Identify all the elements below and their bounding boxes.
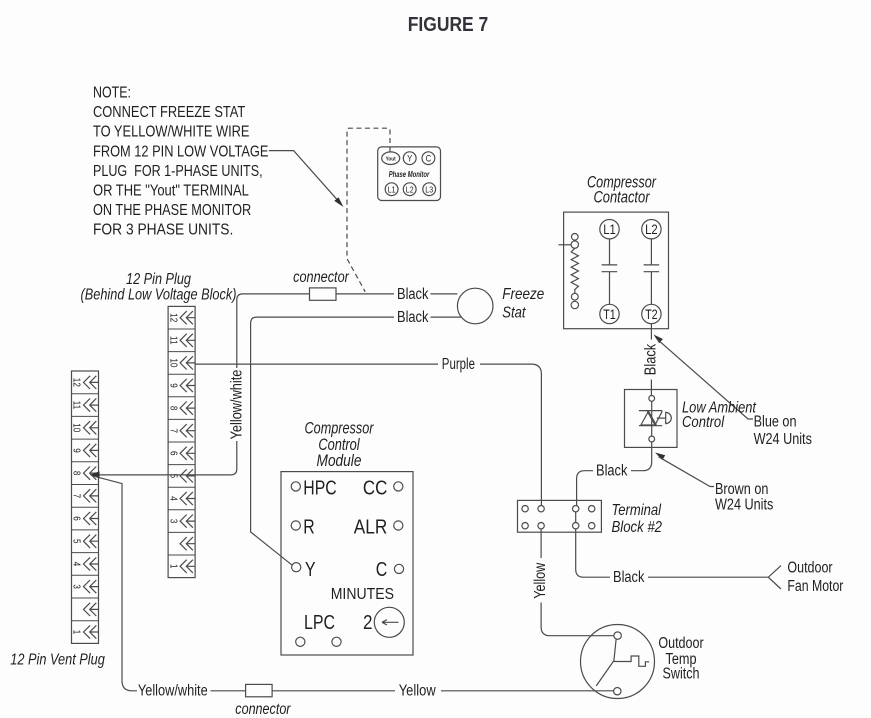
svg-text:Terminal: Terminal	[612, 502, 662, 519]
svg-text:FIGURE 7: FIGURE 7	[408, 13, 489, 36]
low ambient internal wires	[651, 401, 653, 436]
svg-text:12 Pin Vent Plug: 12 Pin Vent Plug	[10, 652, 105, 669]
phase monitor terminal C	[422, 152, 435, 165]
12 pin vent plug J2 pin 5 chevron contact	[84, 535, 99, 548]
12 pin low voltage plug J1 pin 1 chevron contact	[180, 560, 195, 573]
note leader arrowhead	[334, 197, 343, 207]
module LPC terminal screw 1	[296, 637, 305, 646]
12 pin low voltage plug J1 cell divider	[168, 351, 195, 353]
svg-text:ON THE PHASE MONITOR: ON THE PHASE MONITOR	[93, 202, 251, 219]
wire from vent plug pin 8 down to bottom connector	[95, 476, 138, 691]
12 pin low voltage plug J1 cell divider	[168, 509, 195, 511]
svg-text:1: 1	[167, 564, 178, 569]
12 pin vent plug J2 cell divider	[72, 574, 99, 576]
svg-text:6: 6	[71, 516, 82, 521]
terminal block screw	[589, 506, 595, 512]
terminal block screw	[538, 523, 544, 529]
low ambient valve symbol	[639, 411, 671, 426]
svg-text:6: 6	[167, 451, 178, 456]
svg-text:W24 Units: W24 Units	[754, 431, 812, 448]
svg-text:9: 9	[167, 383, 178, 388]
phase monitor terminal Yout	[382, 152, 400, 165]
leader arrowhead at T2 wire	[654, 335, 663, 344]
wire black from contactor T2 to low ambient control	[650, 324, 652, 396]
phase monitor terminal L1	[385, 183, 398, 196]
terminal block screw	[589, 523, 595, 529]
svg-text:4: 4	[71, 562, 82, 567]
contactor terminal T1	[600, 304, 619, 323]
svg-text:Black: Black	[642, 344, 659, 376]
12 pin low voltage plug J1 pin 6 chevron contact	[180, 447, 195, 460]
terminal block screw	[573, 523, 579, 529]
svg-text:Yellow/white: Yellow/white	[228, 370, 245, 440]
note leader line	[269, 151, 339, 202]
12 pin low voltage plug J1 pin 3 chevron contact	[180, 515, 195, 528]
svg-text:Control: Control	[682, 414, 724, 431]
svg-text:5: 5	[71, 539, 82, 544]
svg-text:10: 10	[167, 358, 178, 367]
svg-text:connector: connector	[235, 701, 291, 718]
module terminal C	[394, 564, 403, 573]
svg-text:Blue on: Blue on	[754, 414, 797, 431]
svg-text:Yellow/white: Yellow/white	[138, 682, 208, 699]
svg-text:Freeze: Freeze	[502, 286, 544, 303]
contactor terminal L2	[642, 220, 661, 239]
svg-text:9: 9	[71, 448, 82, 453]
wire purple from plug pin 10 to terminal block	[195, 363, 438, 365]
svg-text:Stat: Stat	[502, 305, 526, 322]
svg-text:Black: Black	[596, 463, 628, 480]
svg-text:C: C	[426, 154, 432, 165]
svg-text:TO YELLOW/WHITE WIRE: TO YELLOW/WHITE WIRE	[93, 124, 250, 141]
svg-text:OR THE "Yout" TERMINAL: OR THE "Yout" TERMINAL	[93, 183, 249, 200]
svg-text:Contactor: Contactor	[593, 189, 650, 207]
12 pin low voltage plug J1 cell divider	[168, 486, 195, 488]
svg-text:12: 12	[71, 378, 82, 387]
12 pin low voltage plug J1 pin 9 chevron contact	[180, 379, 195, 392]
svg-text:T1: T1	[603, 307, 616, 322]
svg-text:PLUG FOR 1-PHASE UNITS,: PLUG FOR 1-PHASE UNITS,	[93, 163, 263, 180]
12 pin vent plug J2 cell divider	[72, 597, 99, 599]
svg-text:C: C	[376, 559, 388, 581]
phase monitor U1	[378, 147, 441, 201]
svg-text:7: 7	[71, 494, 82, 499]
temp switch top terminal	[614, 632, 621, 639]
terminal block screw	[573, 506, 579, 512]
svg-text:L2: L2	[406, 184, 414, 194]
12 pin low voltage plug J1 cell divider	[168, 554, 195, 556]
svg-text:4: 4	[167, 496, 178, 501]
wire black from terminal block to outdoor fan motor	[576, 529, 769, 577]
terminal block #2 body	[518, 500, 602, 532]
module terminal ALR	[394, 521, 403, 530]
wire black from low ambient bottom to terminal block	[577, 442, 652, 506]
12 pin low voltage plug J1 cell divider	[168, 531, 195, 533]
12 pin low voltage plug J1 cell divider	[168, 373, 195, 375]
terminal block screw	[538, 506, 544, 512]
wire yellow/white from plug pin 5 up to freeze stat black wire	[92, 441, 237, 475]
svg-text:FOR 3 PHASE UNITS.: FOR 3 PHASE UNITS.	[93, 222, 233, 239]
svg-text:2: 2	[363, 612, 373, 634]
12 pin vent plug J2 pin 8 chevron contact	[84, 467, 99, 480]
svg-text:L3: L3	[425, 184, 433, 194]
contactor coil	[559, 234, 579, 309]
12 pin low voltage plug J1 pin 11 chevron contact	[180, 334, 195, 347]
12 pin low voltage plug J1 pin 4 chevron contact	[180, 492, 195, 505]
connector (bottom)	[246, 684, 273, 696]
svg-text:Yellow: Yellow	[532, 562, 549, 599]
minutes dial	[374, 607, 404, 637]
fan motor connection fork	[768, 566, 781, 589]
svg-text:L1: L1	[388, 184, 396, 194]
svg-text:Block #2: Block #2	[612, 519, 663, 536]
svg-text:Yellow: Yellow	[399, 682, 437, 699]
12 pin low voltage plug J1 pin 12 chevron contact	[180, 311, 195, 324]
contactor terminal T2	[642, 304, 661, 323]
svg-text:7: 7	[167, 428, 178, 433]
temp switch actuator	[614, 656, 649, 666]
12 pin low voltage plug J1 cell divider	[168, 396, 195, 398]
12 pin low voltage plug J1 pin 2 chevron contact	[180, 537, 195, 550]
12 pin vent plug J2 pin 1 chevron contact	[84, 625, 99, 638]
12 pin vent plug J2 cell divider	[72, 529, 99, 531]
12 pin vent plug J2 body	[72, 371, 99, 643]
12 pin vent plug J2 cell divider	[72, 438, 99, 440]
svg-text:12: 12	[167, 313, 178, 322]
svg-text:12 Pin Plug: 12 Pin Plug	[126, 271, 191, 288]
svg-text:8: 8	[71, 471, 82, 476]
svg-text:L1: L1	[603, 222, 616, 237]
12 pin vent plug J2 pin 6 chevron contact	[84, 512, 99, 525]
svg-text:HPC: HPC	[303, 477, 336, 499]
svg-text:Compressor: Compressor	[305, 420, 375, 438]
12 pin vent plug J2 cell divider	[72, 506, 99, 508]
svg-text:T2: T2	[645, 307, 658, 322]
wire yellow from terminal block to outdoor temp switch	[541, 529, 614, 636]
12 pin low voltage plug J1 pin 8 chevron contact	[180, 402, 195, 415]
12 pin low voltage plug J1 pin 5 chevron contact	[180, 469, 195, 482]
12 pin vent plug J2 pin 3 chevron contact	[84, 580, 99, 593]
contactor pole L2-T2	[644, 239, 660, 304]
svg-text:Module: Module	[317, 452, 362, 470]
svg-text:3: 3	[71, 584, 82, 589]
svg-text:Outdoor: Outdoor	[658, 635, 703, 652]
freeze stat S1	[457, 288, 493, 324]
svg-text:CC: CC	[363, 477, 387, 499]
12 pin vent plug J2 pin 7 chevron contact	[84, 489, 99, 502]
phase monitor terminal L3	[423, 183, 436, 196]
wire black to freeze stat (upper)	[336, 293, 457, 295]
wire black to freeze stat (lower) from module Y terminal	[251, 317, 462, 565]
low ambient top terminal	[649, 396, 655, 402]
svg-text:10: 10	[71, 423, 82, 432]
12 pin vent plug J2 pin 11 chevron contact	[84, 398, 99, 411]
compressor contactor K1 body	[564, 212, 669, 329]
leader line to brown label	[659, 457, 714, 487]
svg-text:Y: Y	[407, 154, 413, 165]
svg-text:connector: connector	[293, 269, 349, 286]
outdoor temp switch S2 body	[581, 625, 655, 699]
contactor terminal L1	[600, 220, 619, 239]
phase monitor terminal Y	[403, 152, 416, 165]
bottom yellow/white wire	[211, 690, 396, 692]
contactor pole L1-T1	[602, 239, 618, 304]
svg-text:NOTE:: NOTE:	[93, 85, 131, 102]
12 pin vent plug J2 pin 10 chevron contact	[84, 421, 99, 434]
12 pin low voltage plug J1 cell divider	[168, 328, 195, 330]
module terminal CC	[394, 482, 403, 491]
svg-text:Phase Monitor: Phase Monitor	[389, 170, 430, 179]
12 pin vent plug J2 pin 9 chevron contact	[84, 444, 99, 457]
12 pin low voltage plug J1 cell divider	[168, 441, 195, 443]
12 pin vent plug J2 pin 2 chevron contact	[84, 603, 99, 616]
phase monitor terminal L2	[403, 183, 416, 196]
12 pin low voltage plug J1 cell divider	[168, 464, 195, 466]
module LPC terminal screw 2	[332, 637, 341, 646]
module terminal HPC	[291, 482, 300, 491]
12 pin vent plug J2 pin 12 chevron contact	[84, 376, 99, 389]
bottom yellow wire to temp switch	[441, 690, 613, 692]
svg-text:Black: Black	[613, 569, 645, 586]
12 pin low voltage plug J1 pin 10 chevron contact	[180, 356, 195, 369]
12 pin low voltage plug J1 cell divider	[168, 418, 195, 420]
leader arrowhead at low ambient bottom	[655, 453, 665, 461]
temp switch lever	[596, 639, 616, 686]
12 pin vent plug J2 cell divider	[72, 415, 99, 417]
svg-text:ALR: ALR	[354, 517, 388, 539]
compressor control module U2 body	[281, 472, 413, 655]
svg-text:CONNECT FREEZE STAT: CONNECT FREEZE STAT	[93, 104, 246, 121]
temp switch bottom terminal	[614, 688, 621, 695]
svg-text:3: 3	[167, 519, 178, 524]
svg-text:R: R	[303, 517, 314, 539]
arrowhead into vent plug pin 8	[90, 471, 100, 478]
svg-text:FROM 12 PIN LOW VOLTAGE: FROM 12 PIN LOW VOLTAGE	[93, 143, 268, 160]
module terminal R	[291, 521, 300, 530]
svg-text:W24 Units: W24 Units	[715, 497, 773, 514]
terminal block jumper	[575, 512, 577, 523]
svg-text:MINUTES: MINUTES	[331, 586, 394, 603]
12 pin vent plug J2 cell divider	[72, 461, 99, 463]
svg-text:11: 11	[167, 336, 178, 345]
12 pin vent plug J2 pin 4 chevron contact	[84, 557, 99, 570]
svg-text:LPC: LPC	[304, 612, 335, 634]
svg-text:Yout: Yout	[386, 156, 396, 162]
svg-text:Brown on: Brown on	[715, 481, 768, 498]
svg-text:Y: Y	[305, 559, 316, 581]
svg-text:Outdoor: Outdoor	[787, 559, 832, 576]
svg-text:Fan Motor: Fan Motor	[787, 578, 843, 595]
12 pin vent plug J2 cell divider	[72, 393, 99, 395]
low ambient control body	[625, 390, 678, 448]
terminal block screw	[522, 523, 528, 529]
connector (top)	[310, 288, 337, 300]
svg-text:L2: L2	[645, 222, 658, 237]
low ambient bottom terminal	[649, 436, 655, 442]
12 pin vent plug J2 cell divider	[72, 484, 99, 486]
leader line to blue label	[657, 339, 753, 419]
svg-text:11: 11	[71, 401, 82, 410]
dashed wire from Yout terminal of phase monitor	[347, 128, 390, 292]
svg-text:(Behind Low Voltage Block): (Behind Low Voltage Block)	[81, 287, 237, 304]
12 pin low voltage plug J1 pin 7 chevron contact	[180, 424, 195, 437]
12 pin low voltage plug J1 body	[168, 306, 195, 577]
svg-text:1: 1	[71, 630, 82, 635]
terminal block screw	[522, 506, 528, 512]
module terminal Y	[292, 563, 301, 572]
svg-text:Switch: Switch	[663, 665, 700, 682]
svg-text:Black: Black	[397, 286, 429, 303]
svg-text:8: 8	[167, 406, 178, 411]
12 pin vent plug J2 cell divider	[72, 552, 99, 554]
svg-text:Purple: Purple	[442, 356, 475, 373]
12 pin vent plug J2 cell divider	[72, 620, 99, 622]
svg-text:Black: Black	[397, 309, 429, 326]
